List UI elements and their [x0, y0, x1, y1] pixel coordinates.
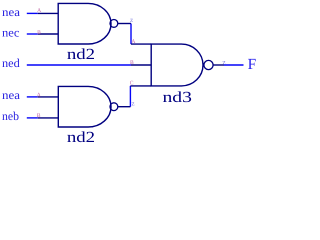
- nand3 U3 output bubble: [204, 60, 213, 69]
- net neb wire: [27, 117, 38, 119]
- svg-text:C: C: [130, 80, 134, 86]
- net nea (bottom) wire: [27, 96, 38, 98]
- nand2 U2 pin A stub: [38, 96, 59, 98]
- nand3 U3 body: [151, 44, 203, 86]
- svg-text:A: A: [37, 92, 41, 98]
- net ned wire: [27, 64, 131, 66]
- svg-text:B: B: [37, 30, 41, 36]
- svg-text:neb: neb: [2, 109, 19, 123]
- svg-text:nec: nec: [2, 26, 19, 40]
- nand3 U3 pin C stub: [130, 85, 151, 87]
- nand3 U3 pin A stub: [131, 43, 151, 45]
- svg-text:nd2: nd2: [67, 46, 95, 63]
- nand2 U2 body: [58, 86, 111, 127]
- svg-text:ned: ned: [2, 56, 20, 70]
- svg-text:z: z: [130, 16, 133, 24]
- nand2 U1 pin Z stub: [118, 23, 131, 25]
- wire U1 output to U3 input A (vertical riser): [130, 24, 132, 45]
- nand2 U1 output bubble: [110, 20, 118, 28]
- net nea (top) wire: [27, 12, 38, 14]
- nand2 U1 pin B stub: [38, 33, 58, 35]
- svg-text:A: A: [37, 8, 41, 14]
- svg-text:A: A: [131, 39, 135, 45]
- svg-text:nea: nea: [2, 5, 21, 19]
- nand2 U1 body: [58, 3, 111, 44]
- svg-text:nd2: nd2: [67, 129, 95, 146]
- svg-text:B: B: [37, 113, 41, 119]
- svg-text:nd3: nd3: [163, 89, 193, 106]
- nand2 U2 pin B stub: [38, 117, 59, 119]
- svg-text:z: z: [132, 99, 135, 107]
- svg-text:B: B: [130, 60, 134, 66]
- nand2 U1 pin A stub: [38, 12, 58, 14]
- wire U2 output to U3 input C (vertical riser): [129, 86, 131, 107]
- net F wire: [224, 64, 244, 66]
- nand2 U2 output bubble: [110, 103, 118, 111]
- nand2 U2 pin Z stub: [118, 106, 131, 108]
- svg-text:F: F: [248, 56, 257, 73]
- nand3 U3 pin B stub: [131, 64, 151, 66]
- nand3 U3 pin Z stub: [213, 64, 224, 66]
- svg-text:nea: nea: [2, 88, 21, 102]
- net nec wire: [27, 33, 38, 35]
